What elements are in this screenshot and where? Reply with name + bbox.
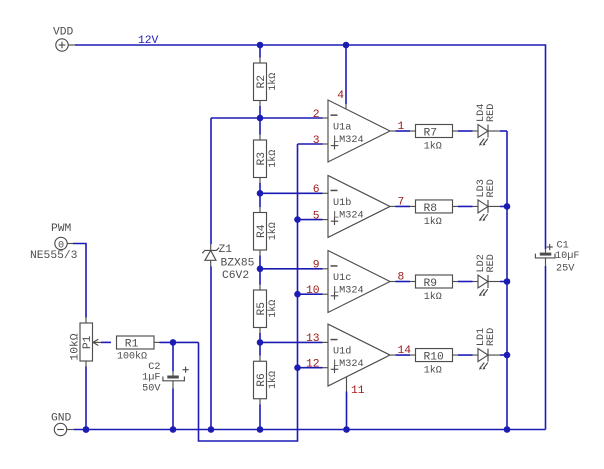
svg-text:1kΩ: 1kΩ xyxy=(424,291,442,303)
svg-text:1kΩ: 1kΩ xyxy=(424,140,442,152)
svg-text:1kΩ: 1kΩ xyxy=(424,364,442,376)
svg-text:10kΩ: 10kΩ xyxy=(70,333,82,360)
svg-text:U1c: U1c xyxy=(333,273,351,284)
svg-text:RED: RED xyxy=(486,254,497,272)
svg-text:LM324: LM324 xyxy=(333,286,364,297)
svg-text:1µF: 1µF xyxy=(142,373,160,384)
svg-text:12V: 12V xyxy=(138,35,159,47)
svg-text:1kΩ: 1kΩ xyxy=(424,216,442,228)
svg-text:RED: RED xyxy=(486,328,497,346)
svg-text:R6: R6 xyxy=(256,373,268,387)
svg-text:10µF: 10µF xyxy=(555,251,579,262)
svg-text:Z1: Z1 xyxy=(219,244,233,256)
svg-text:U1d: U1d xyxy=(333,346,351,358)
svg-text:R3: R3 xyxy=(256,152,268,166)
svg-text:5: 5 xyxy=(313,210,320,222)
svg-text:P1: P1 xyxy=(82,335,94,349)
svg-text:R8: R8 xyxy=(424,203,438,215)
svg-text:C2: C2 xyxy=(148,362,160,373)
svg-text:RED: RED xyxy=(486,104,497,122)
svg-text:1kΩ: 1kΩ xyxy=(267,73,279,91)
svg-text:R2: R2 xyxy=(256,75,268,89)
svg-text:NE555/3: NE555/3 xyxy=(30,250,78,262)
svg-text:C6V2: C6V2 xyxy=(222,270,249,282)
svg-text:100kΩ: 100kΩ xyxy=(117,351,147,363)
svg-text:9: 9 xyxy=(313,260,320,272)
svg-text:U1a: U1a xyxy=(333,123,351,134)
svg-text:1kΩ: 1kΩ xyxy=(267,222,279,240)
svg-text:VDD: VDD xyxy=(53,27,74,39)
svg-text:R10: R10 xyxy=(424,351,445,363)
svg-text:LM324: LM324 xyxy=(333,359,364,370)
svg-text:3: 3 xyxy=(313,135,320,147)
svg-text:LM324: LM324 xyxy=(333,135,364,146)
svg-text:1kΩ: 1kΩ xyxy=(267,300,279,318)
svg-text:LM324: LM324 xyxy=(333,210,364,221)
svg-text:C1: C1 xyxy=(557,241,569,252)
svg-text:13: 13 xyxy=(306,333,320,345)
svg-text:11: 11 xyxy=(351,385,365,397)
svg-text:10: 10 xyxy=(306,285,320,297)
svg-text:50V: 50V xyxy=(142,384,161,395)
svg-text:R7: R7 xyxy=(424,127,438,139)
svg-text:1kΩ: 1kΩ xyxy=(267,150,279,168)
svg-text:U1b: U1b xyxy=(333,197,351,209)
svg-text:R9: R9 xyxy=(424,278,438,290)
svg-text:1kΩ: 1kΩ xyxy=(267,371,279,389)
svg-text:25V: 25V xyxy=(556,263,575,274)
svg-text:GND: GND xyxy=(51,413,72,425)
svg-text:RED: RED xyxy=(486,179,497,197)
svg-text:R4: R4 xyxy=(256,224,268,238)
svg-text:R1: R1 xyxy=(125,339,139,351)
svg-text:R5: R5 xyxy=(256,302,268,316)
svg-text:4: 4 xyxy=(337,90,344,102)
svg-text:PWM: PWM xyxy=(51,223,72,235)
svg-text:12: 12 xyxy=(306,359,320,371)
svg-text:BZX85: BZX85 xyxy=(221,258,255,270)
svg-text:6: 6 xyxy=(313,184,320,196)
svg-text:2: 2 xyxy=(313,109,320,121)
